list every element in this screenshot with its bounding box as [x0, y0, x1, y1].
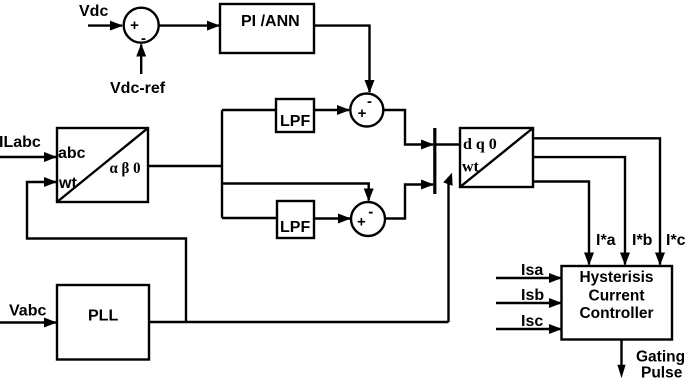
svg-text:Vdc-ref: Vdc-ref	[110, 80, 166, 97]
svg-text:+: +	[358, 105, 367, 122]
svg-text:LPF: LPF	[280, 113, 310, 130]
svg-text:d q 0: d q 0	[463, 136, 497, 153]
svg-text:PI /ANN: PI /ANN	[241, 13, 300, 30]
svg-text:Isa: Isa	[521, 262, 543, 279]
svg-text:Controller: Controller	[579, 305, 653, 322]
svg-text:+: +	[357, 214, 366, 231]
svg-text:Hysterisis: Hysterisis	[579, 269, 653, 286]
svg-text:I*c: I*c	[666, 232, 685, 249]
svg-text:ILabc: ILabc	[0, 134, 41, 151]
svg-text:α β 0: α β 0	[110, 160, 141, 177]
svg-text:+: +	[130, 17, 139, 34]
svg-text:LPF: LPF	[280, 219, 310, 236]
svg-text:Isc: Isc	[521, 313, 543, 330]
svg-text:Current: Current	[589, 288, 645, 305]
svg-text:Pulse: Pulse	[641, 365, 683, 382]
svg-text:I*a: I*a	[596, 232, 616, 249]
svg-text:Vdc: Vdc	[79, 3, 108, 20]
svg-text:-: -	[367, 93, 372, 110]
svg-text:Gating: Gating	[636, 349, 685, 366]
svg-text:I*b: I*b	[632, 232, 653, 249]
svg-text:PLL: PLL	[88, 308, 118, 325]
svg-text:-: -	[368, 204, 373, 221]
svg-text:abc: abc	[58, 145, 86, 162]
svg-text:-: -	[141, 30, 146, 47]
svg-text:wt: wt	[58, 175, 77, 192]
svg-text:wt: wt	[462, 159, 480, 176]
svg-text:Isb: Isb	[521, 287, 544, 304]
svg-text:Vabc: Vabc	[9, 303, 46, 320]
